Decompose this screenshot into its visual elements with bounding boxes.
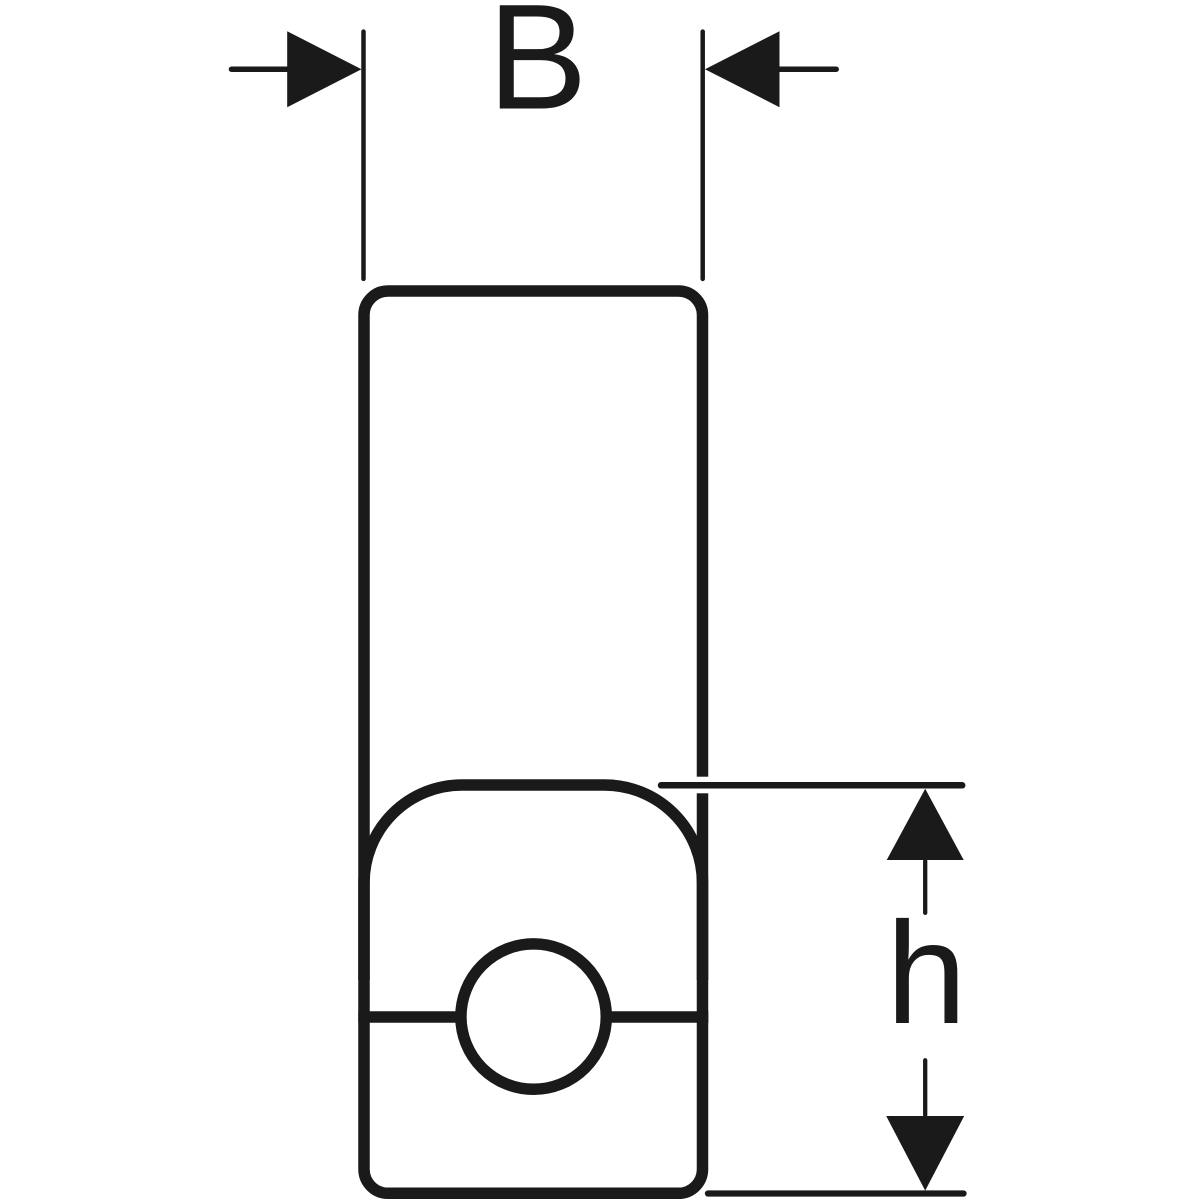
svg-text:B: B [487,0,587,141]
svg-text:h: h [886,892,967,1054]
